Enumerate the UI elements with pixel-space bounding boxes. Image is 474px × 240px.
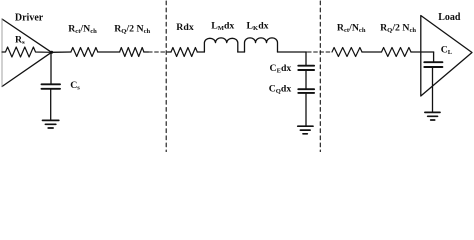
section boundary (right dashed line): [319, 1, 321, 152]
svg-text:CQdx: CQdx: [269, 84, 292, 96]
wire (Rdx to LM): [197, 51, 204, 53]
resistor Rs: [2, 47, 52, 57]
wire (LM to LK): [238, 51, 245, 53]
wire (CL to ground): [432, 67, 434, 112]
wire (junction to Rct): [52, 51, 71, 53]
inductor LMdx: [204, 38, 237, 52]
node A (driver output junction): [50, 51, 53, 54]
svg-text:RQ/2 Nch: RQ/2 Nch: [114, 24, 150, 36]
capacitor CQdx: [298, 89, 314, 93]
svg-text:Rs: Rs: [15, 34, 25, 46]
wire (boundary to Rdx): [168, 51, 172, 53]
resistor Rct/Nch (driver side): [71, 48, 98, 57]
svg-text:Rct/Nch: Rct/Nch: [68, 24, 97, 36]
wire (CQ to ground): [305, 93, 307, 126]
section boundary (left dashed line): [165, 1, 167, 152]
svg-text:LMdx: LMdx: [211, 20, 234, 32]
wire (between Rct and RQ, driver side): [98, 51, 120, 53]
driver amplifier U1: [2, 19, 52, 87]
wire (RQ to load / CL node): [411, 51, 434, 53]
resistor RQ/2Nch (load side): [382, 48, 412, 57]
resistor Rdx: [171, 48, 197, 57]
wire (dashed, node to right section): [308, 51, 332, 53]
capacitor CEdx: [298, 66, 314, 70]
svg-text:LKdx: LKdx: [247, 20, 269, 32]
capacitor Cs: [42, 84, 61, 89]
wire (dashed, into distributed section): [149, 51, 171, 53]
wire (driver output to Cs): [50, 52, 52, 84]
svg-text:RQ/2 Nch: RQ/2 Nch: [380, 23, 416, 35]
svg-text:Rdx: Rdx: [176, 22, 194, 33]
svg-text:Driver: Driver: [15, 13, 44, 24]
resistor RQ/2Nch (driver side): [120, 48, 144, 57]
wire (node down to CL): [433, 52, 435, 62]
wire (LK to capacitor node): [278, 51, 307, 53]
resistor Rct/Nch (load side): [332, 48, 362, 57]
wire (CE to CQ): [305, 70, 307, 89]
svg-text:Rct/Nch: Rct/Nch: [337, 23, 366, 35]
wire (RQ to section boundary): [144, 51, 149, 53]
capacitor CL: [424, 62, 442, 67]
wire (Cs to ground): [50, 89, 52, 120]
ground (driver side): [43, 120, 59, 128]
ground (load side): [425, 112, 440, 120]
wire (between Rct and RQ, load side): [362, 51, 382, 53]
svg-text:CL: CL: [441, 44, 453, 56]
svg-text:Load: Load: [438, 12, 461, 23]
load amplifier U2: [421, 16, 472, 97]
svg-text:CEdx: CEdx: [270, 63, 292, 75]
ground (middle): [298, 126, 313, 134]
inductor LKdx: [245, 38, 278, 52]
svg-text:Cs: Cs: [70, 80, 80, 92]
wire (node down to CE): [305, 52, 307, 66]
